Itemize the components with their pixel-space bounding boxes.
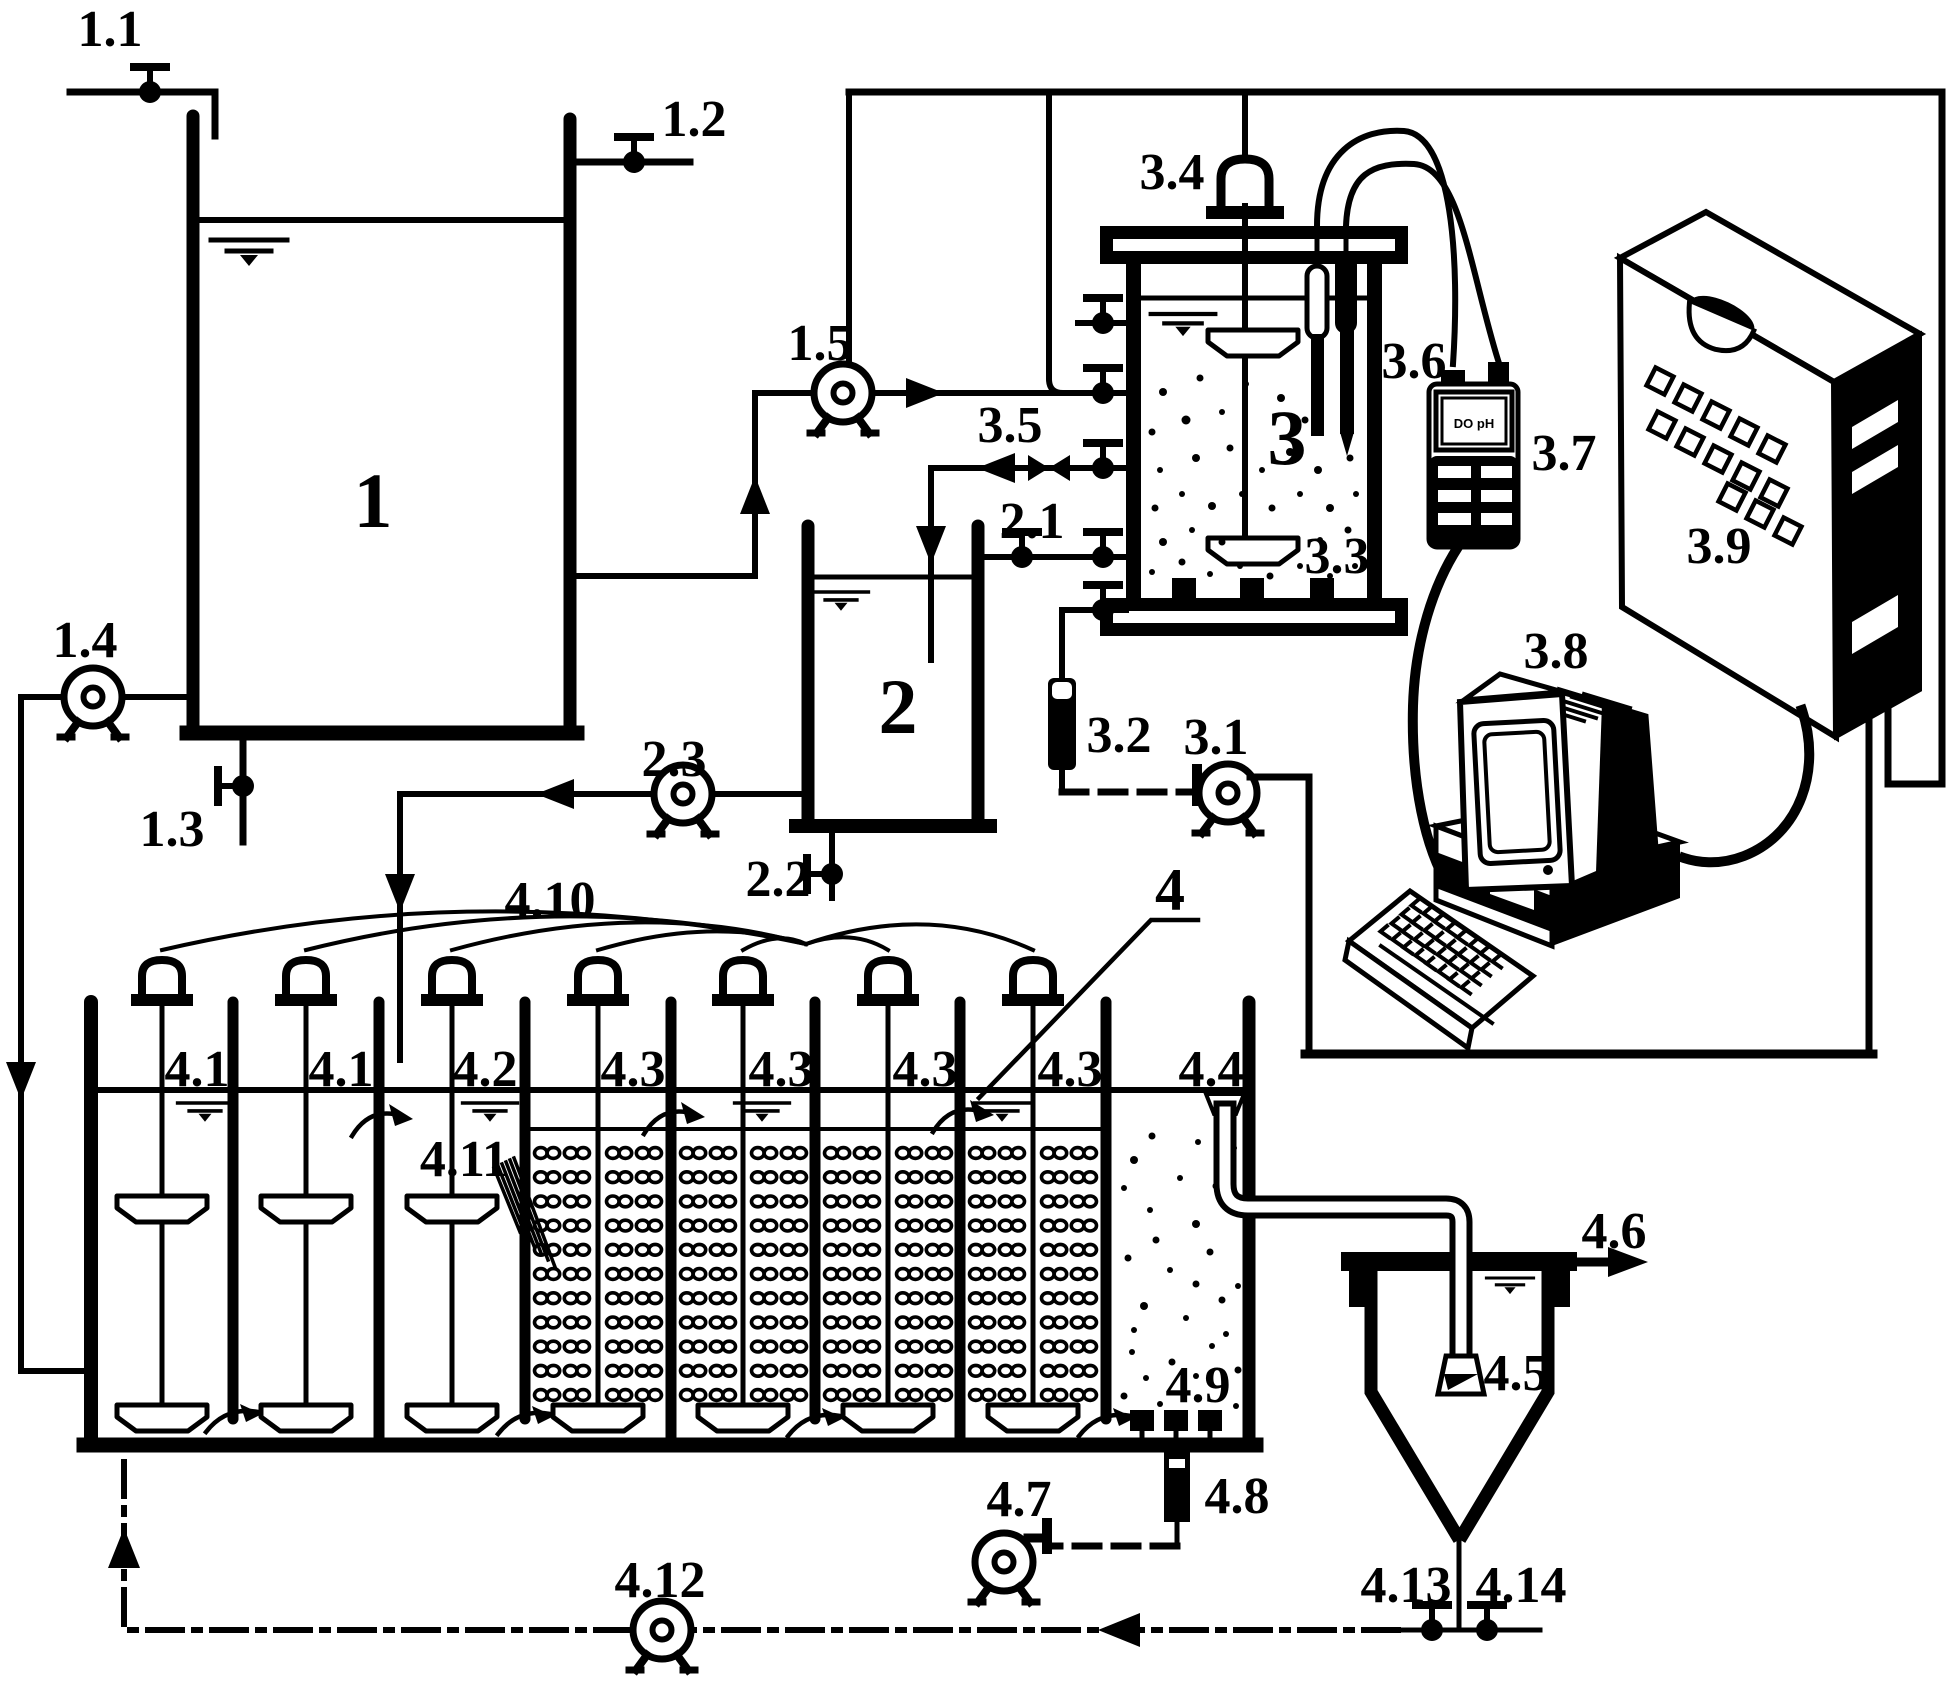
sludge return arrow left <box>1098 1613 1140 1647</box>
svg-text:3.5: 3.5 <box>978 397 1043 454</box>
svg-text:4.3: 4.3 <box>1038 1041 1103 1098</box>
pump 1.4 <box>60 668 126 737</box>
valve 3.5 bowtie <box>1028 455 1070 481</box>
reactor 3 walls <box>1126 264 1141 598</box>
motors 4.10 row <box>131 960 193 1006</box>
arrow left on 3.5 line <box>977 453 1015 483</box>
pump 4.12 <box>629 1601 695 1670</box>
valve port 1 <box>1087 298 1119 334</box>
clarifier bottom stem <box>1457 1534 1462 1630</box>
divider 4 <box>666 1002 677 1440</box>
control cabinet 3.9 side face <box>1834 334 1920 737</box>
reactor port 1 stub <box>1078 320 1126 326</box>
svg-text:1.3: 1.3 <box>140 801 205 858</box>
motor cables 4.10 <box>162 911 1033 950</box>
drain sensor 4.8 <box>1164 1452 1190 1522</box>
pump 4.7 <box>971 1533 1037 1602</box>
sludge return dash-dot line <box>124 1452 1398 1630</box>
arrow left on 2.3 line <box>536 779 574 809</box>
svg-text:4.14: 4.14 <box>1476 1557 1567 1614</box>
reactor 3 inner top line <box>1141 296 1367 301</box>
water level mark tank 2 <box>814 592 869 611</box>
valve 2.1 <box>1006 532 1038 568</box>
reactor 3 top flange <box>1100 226 1408 264</box>
svg-text:3.3: 3.3 <box>1305 528 1370 585</box>
pump 2.3 <box>650 765 716 834</box>
svg-text:1.2: 1.2 <box>662 91 727 148</box>
valve port 3 <box>1087 443 1119 479</box>
svg-text:3.6: 3.6 <box>1382 333 1447 390</box>
tank 1 <box>193 116 570 733</box>
valve port 4 <box>1087 532 1119 568</box>
valve 1.3 <box>218 770 254 802</box>
valve 1.2 <box>618 137 650 173</box>
computer 3.8 monitor bezel <box>1460 694 1572 890</box>
center pipe bell mouth 4.5 <box>1438 1356 1484 1394</box>
flow meter 3.2 <box>1048 678 1076 770</box>
svg-text:1: 1 <box>354 457 393 544</box>
svg-text:2.3: 2.3 <box>642 731 707 788</box>
svg-text:4.3: 4.3 <box>601 1041 666 1098</box>
pump 1.5 <box>810 364 876 433</box>
probe 2 pH <box>1335 254 1357 334</box>
arrow down into tank 2 <box>916 526 946 564</box>
water level mark tank 1 <box>211 240 287 266</box>
water level mark reactor 3 <box>1151 314 1216 336</box>
motor 3.4 <box>1206 159 1284 219</box>
pipe tank2 drain 2.2 <box>829 832 835 898</box>
tank 4 left wall <box>84 1002 98 1445</box>
keyboard <box>1349 891 1533 1028</box>
weir arrows bottom <box>206 1411 1131 1436</box>
valve port 2 <box>1087 368 1119 404</box>
svg-text:4.10: 4.10 <box>505 872 596 929</box>
cabinet side vents <box>1852 400 1898 449</box>
valve 4.13 <box>1416 1605 1448 1641</box>
upper paddles comps 1-3 <box>117 1196 207 1222</box>
tank 2 <box>808 526 978 826</box>
cable meter 3.7 to computer <box>1413 547 1458 892</box>
svg-text:4.13: 4.13 <box>1361 1557 1452 1614</box>
sludge line with valves <box>1398 1628 1540 1633</box>
effluent pipe 4.4 funnel <box>1206 1094 1244 1114</box>
media top lines <box>531 1127 1100 1131</box>
divider 6 <box>955 1002 966 1440</box>
svg-text:4: 4 <box>1155 857 1185 923</box>
clarifier 4.5 rim <box>1341 1252 1577 1271</box>
svg-text:4.6: 4.6 <box>1582 1203 1647 1260</box>
bubbles in reactor 3 <box>1149 375 1360 580</box>
computer 3.8 base unit <box>1436 800 1680 870</box>
svg-text:4.1: 4.1 <box>165 1041 230 1098</box>
level marks tank 4 <box>178 1103 233 1122</box>
svg-text:4.8: 4.8 <box>1205 1468 1270 1525</box>
svg-text:4.9: 4.9 <box>1166 1357 1231 1414</box>
reactor 3 bottom flange <box>1100 598 1408 636</box>
svg-text:4.4: 4.4 <box>1179 1041 1244 1098</box>
tank 4 bottom <box>84 1438 1256 1453</box>
pump 3.1 inlet tee <box>1192 764 1202 806</box>
monitor top vents <box>1464 674 1612 706</box>
svg-text:3.2: 3.2 <box>1087 707 1152 764</box>
pipe inlet 1.1 <box>70 92 215 136</box>
weir arrows top <box>352 1110 983 1137</box>
arrow right after pump 1.5 <box>906 378 944 408</box>
bottom paddles <box>117 1405 207 1431</box>
svg-text:4.3: 4.3 <box>893 1041 958 1098</box>
pipe tank2 to reactor with valve 2.1 <box>985 554 1126 560</box>
divider 1 <box>228 1002 239 1419</box>
svg-text:DO pH: DO pH <box>1454 416 1494 431</box>
cable cabinet to computer <box>1684 710 1809 862</box>
sludge return arrow up <box>108 1528 140 1568</box>
valve 2.2 <box>807 858 843 890</box>
pump 3.1 <box>1195 764 1261 833</box>
pipe drain 1.3 <box>240 740 247 842</box>
wire drop to feed pipe junction <box>1049 92 1063 393</box>
reactor drain pipe to flow meter <box>1062 610 1126 680</box>
arrow up on 1.5 suction <box>740 476 770 514</box>
control cabinet 3.9 top face <box>1620 212 1920 382</box>
probe cables 3.6 to meter <box>1317 131 1455 364</box>
svg-text:4.2: 4.2 <box>453 1041 518 1098</box>
tank 4 water line <box>98 1087 1243 1093</box>
svg-text:3.7: 3.7 <box>1532 425 1597 482</box>
svg-text:1.4: 1.4 <box>53 612 118 669</box>
pipe overflow 1.2 <box>576 159 690 166</box>
svg-text:4.7: 4.7 <box>987 1471 1052 1528</box>
pipe tank2 to pump 2.3 to tank 4 <box>400 794 801 1060</box>
control wire pump 3.1 to cabinet 3.9 <box>1250 712 1873 1054</box>
dashed line 3.2 to pump 3.1 <box>1062 789 1190 796</box>
pipe reactor discharge via valve 3.5 into tank 2 <box>931 468 1126 660</box>
dashed line 4.8 to pump 4.7 <box>1052 1543 1177 1550</box>
diffuser squares 3.3 <box>1172 578 1196 598</box>
cabinet keyhole <box>1676 288 1760 362</box>
valve 1.1 <box>134 67 166 103</box>
svg-text:4.1: 4.1 <box>309 1041 374 1098</box>
svg-text:2: 2 <box>879 663 918 750</box>
effluent pipe white bore <box>1225 1112 1461 1356</box>
svg-text:3: 3 <box>1268 394 1307 481</box>
divider 5 <box>810 1002 821 1419</box>
arrow down on 1.4 line <box>6 1062 36 1100</box>
settling zone dots <box>1121 1133 1242 1410</box>
divider 2 <box>374 1002 385 1440</box>
DO pH meter 3.7 <box>1429 384 1518 547</box>
probe stems through lid <box>1317 224 1346 264</box>
svg-text:1.5: 1.5 <box>788 315 853 372</box>
svg-text:3.1: 3.1 <box>1184 709 1249 766</box>
pipe tank1 to pump 1.4 and down to tank 4 <box>21 697 187 1371</box>
svg-text:4.12: 4.12 <box>615 1552 706 1609</box>
wire drop to pump 1.5 <box>846 92 852 360</box>
arrow down into tank 4 <box>385 874 415 912</box>
svg-text:3.4: 3.4 <box>1140 144 1205 201</box>
monitor screen <box>1473 720 1560 864</box>
stirrer shafts tank 4 <box>162 1008 1033 1428</box>
computer 3.8 monitor rear housing <box>1560 690 1656 884</box>
svg-text:2.1: 2.1 <box>1000 493 1065 550</box>
clarifier level mark <box>1486 1278 1533 1294</box>
effluent pipe 4.4 to clarifier <box>1225 1112 1461 1356</box>
probe 1 DO <box>1307 266 1327 338</box>
svg-text:2.2: 2.2 <box>746 851 811 908</box>
biofilm media blocks compartments 4-7 <box>535 1148 1097 1401</box>
upper paddle reactor 3 <box>1208 330 1298 356</box>
svg-text:4.11: 4.11 <box>420 1131 508 1188</box>
wire drop to motor 3.4 <box>1242 92 1248 152</box>
tank 4 right wall <box>1243 1002 1256 1445</box>
control cabinet 3.9 front face <box>1620 258 1836 737</box>
sensors 4.9 <box>1130 1410 1222 1431</box>
valve port 5 <box>1087 585 1119 621</box>
svg-text:4.3: 4.3 <box>749 1041 814 1098</box>
wire control header from cabinet <box>849 92 1942 784</box>
valve 4.14 <box>1471 1605 1503 1641</box>
svg-text:3.8: 3.8 <box>1524 623 1589 680</box>
svg-text:3.9: 3.9 <box>1687 518 1752 575</box>
lower paddle 3.3 <box>1208 538 1298 564</box>
stirrer shaft reactor 3 <box>1242 206 1248 556</box>
svg-text:1.1: 1.1 <box>78 1 143 58</box>
clarifier 4.5 body <box>1371 1271 1548 1534</box>
divider 3 <box>520 1002 531 1419</box>
divider 7 <box>1101 1002 1112 1419</box>
outflow 4.6 <box>1577 1258 1616 1267</box>
pipe tank1 to pump 1.5 to reactor <box>576 393 1126 576</box>
cabinet buttons <box>1647 368 1802 545</box>
svg-text:4.5: 4.5 <box>1484 1345 1549 1402</box>
